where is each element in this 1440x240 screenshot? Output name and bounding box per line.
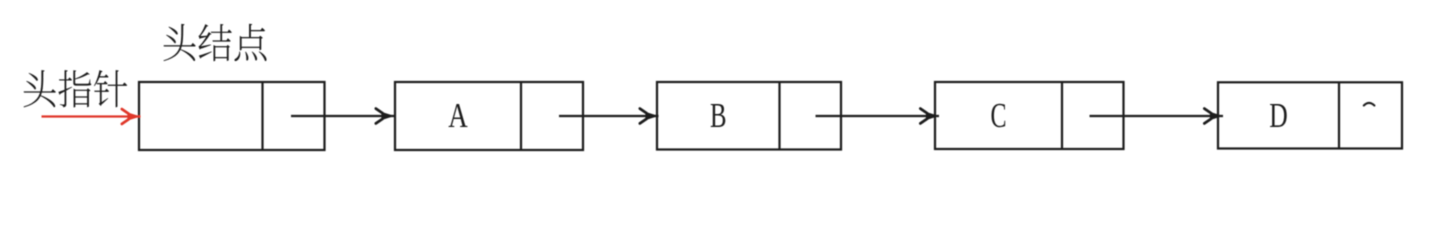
svg-text:B: B xyxy=(710,97,727,135)
NULL caret ^ in node D pointer cell xyxy=(1364,103,1375,106)
node D box xyxy=(1218,82,1402,148)
label 头结点 (head node) xyxy=(164,24,267,61)
arrow A to B xyxy=(559,109,659,124)
arrow head-node to A xyxy=(291,109,395,124)
node C box xyxy=(935,82,1124,149)
red head-pointer arrow xyxy=(42,109,141,124)
svg-text:C: C xyxy=(991,97,1007,135)
svg-text:A: A xyxy=(448,97,468,135)
arrow B to C xyxy=(816,109,940,124)
arrow C to D xyxy=(1090,109,1224,124)
svg-text:D: D xyxy=(1269,97,1288,135)
label 头指针 (head pointer) xyxy=(24,70,128,107)
head-node box xyxy=(139,82,325,150)
node B box xyxy=(657,82,841,150)
node A box xyxy=(395,82,583,150)
